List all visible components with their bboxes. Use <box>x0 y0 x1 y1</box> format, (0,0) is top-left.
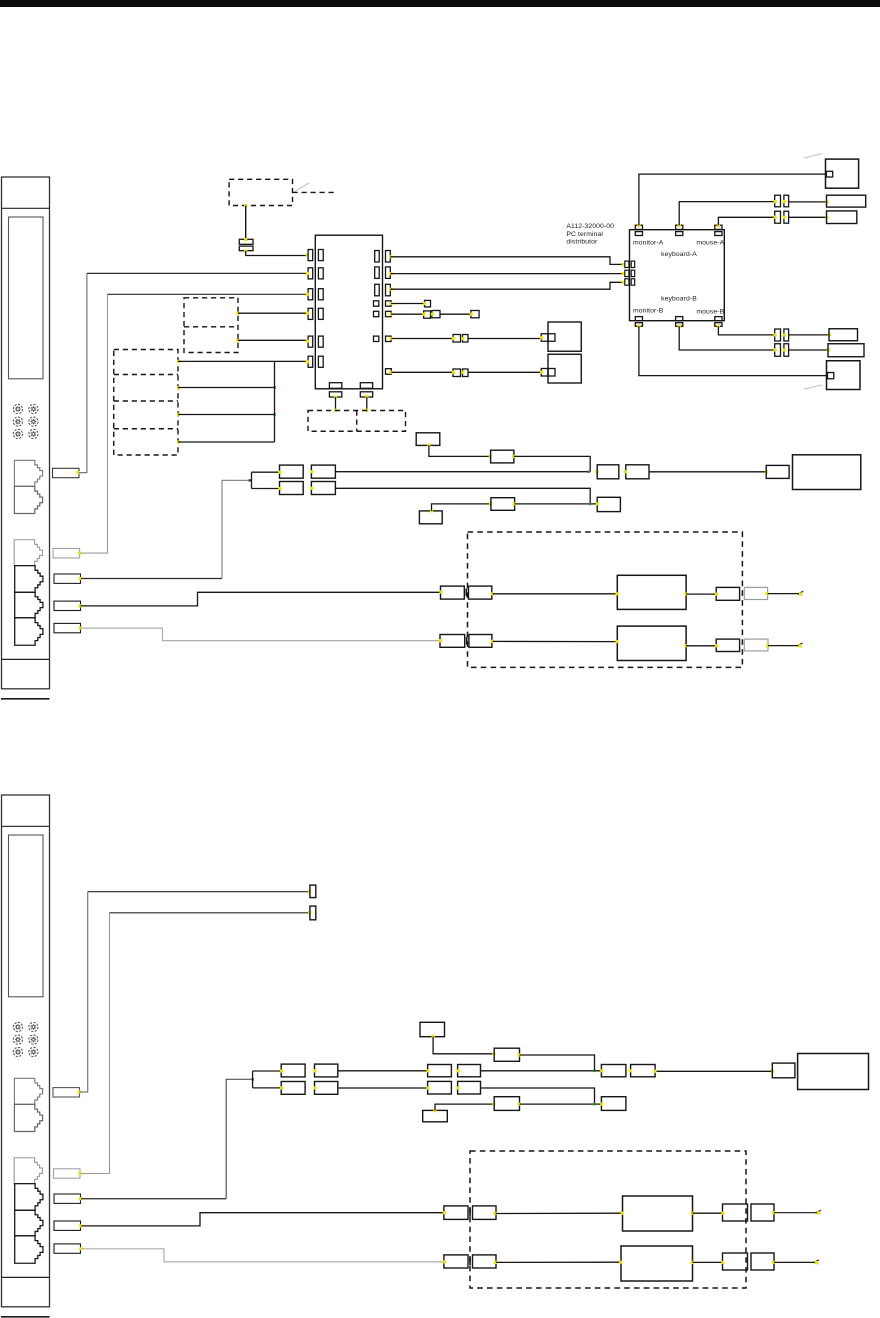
top port inner <box>676 232 683 236</box>
junction dot <box>491 640 494 643</box>
coupler <box>601 1065 626 1077</box>
wire <box>789 216 827 218</box>
junction dot <box>177 413 180 416</box>
connector square <box>463 335 469 343</box>
modular jack <box>15 618 43 646</box>
panel pin inner <box>375 251 380 263</box>
converter box <box>623 1196 693 1231</box>
junction dot <box>439 590 442 593</box>
wire <box>768 593 799 595</box>
inline adapter <box>491 450 514 463</box>
junction dot <box>78 1090 81 1093</box>
panel bottom pin outer <box>360 392 372 397</box>
wire <box>693 1212 723 1214</box>
junction dot <box>79 1224 82 1227</box>
wire <box>366 397 368 411</box>
wire <box>433 1037 494 1054</box>
coupler <box>428 1065 452 1077</box>
top port outer <box>715 225 722 229</box>
junction dot <box>492 1103 495 1106</box>
junction dot <box>774 200 777 203</box>
cable-end arrow <box>816 1210 822 1214</box>
wire <box>774 1261 814 1263</box>
svg-text:monitor-A: monitor-A <box>633 239 664 246</box>
dashed divider <box>114 374 178 376</box>
junction dot <box>389 337 392 340</box>
panel pin outer <box>308 336 313 347</box>
round DIN connector <box>29 1047 38 1056</box>
dashed option box <box>229 179 292 205</box>
cable plug <box>54 574 81 583</box>
junction dot <box>452 371 455 374</box>
wire <box>245 206 247 240</box>
bus branch <box>178 360 275 362</box>
junction dot <box>589 503 592 506</box>
coupler <box>723 1204 748 1221</box>
wire <box>496 1212 623 1214</box>
junction dot <box>236 339 239 342</box>
junction dot <box>691 1212 694 1215</box>
inline connector bar <box>239 246 253 251</box>
split bracket <box>250 472 280 488</box>
front slot panel <box>9 217 44 379</box>
wire <box>493 640 618 642</box>
wire <box>338 1070 428 1072</box>
panel pin inner <box>318 356 323 367</box>
cable vertical <box>81 913 110 1174</box>
panel pin outer <box>308 250 313 261</box>
cable plug <box>53 549 80 558</box>
wire <box>238 339 307 341</box>
modular jack <box>15 1184 43 1211</box>
coupler <box>751 1253 774 1270</box>
cable C5 grey run <box>81 628 440 641</box>
connector half <box>444 1206 468 1220</box>
PC unit B outline <box>2 795 50 1307</box>
junction dot <box>310 487 313 490</box>
junction dot <box>310 470 313 473</box>
connector square <box>453 369 461 377</box>
svg-text:monitor-B: monitor-B <box>633 307 664 314</box>
round DIN connector <box>13 1022 22 1031</box>
junction dot <box>489 502 492 505</box>
junction dot <box>587 470 590 473</box>
coupler <box>597 465 619 479</box>
junction dot <box>427 444 430 447</box>
cable plug <box>53 468 80 477</box>
junction dot <box>273 413 276 416</box>
junction dot <box>244 204 247 207</box>
cable plug <box>54 1169 81 1178</box>
cable <box>390 282 624 289</box>
panel pin small outer <box>386 301 392 306</box>
junction dot <box>783 348 786 351</box>
junction dot <box>624 470 627 473</box>
connector square <box>432 311 440 318</box>
round DIN connector <box>29 1035 38 1044</box>
junction dot <box>621 1212 624 1215</box>
wire <box>789 334 829 336</box>
grey sketch mark <box>804 385 822 389</box>
bottom port inner <box>676 317 683 321</box>
dashed divider <box>184 326 238 328</box>
junction dot <box>278 471 281 474</box>
mouse-B cable <box>718 326 774 335</box>
modular jack <box>14 540 42 566</box>
junction dot <box>236 312 239 315</box>
junction dot <box>717 224 720 227</box>
junction dot <box>715 593 718 596</box>
junction dot <box>273 386 276 389</box>
wire <box>789 349 828 351</box>
junction dot <box>432 1035 435 1038</box>
round DIN connector <box>13 417 22 426</box>
junction dot <box>431 313 434 316</box>
wire <box>515 503 598 505</box>
junction dot <box>622 272 625 275</box>
keyboard B box <box>828 344 864 357</box>
split bracket <box>253 1071 282 1088</box>
dashed box under panel <box>308 411 406 432</box>
wire <box>520 1103 602 1105</box>
cable plug <box>54 1244 81 1253</box>
connector square <box>463 369 469 377</box>
pair pin <box>775 344 781 357</box>
connector half <box>440 635 465 648</box>
junction dot <box>443 1211 446 1214</box>
round DIN connector <box>13 429 22 438</box>
panel pin inner <box>375 267 380 279</box>
coupler <box>631 1065 656 1077</box>
junction dot <box>691 1261 694 1264</box>
modular jack <box>14 1104 42 1131</box>
left port inner <box>631 261 635 267</box>
panel pin outer <box>308 356 313 367</box>
left port inner <box>631 270 635 276</box>
grey leader mark <box>295 183 310 192</box>
wire <box>481 1088 595 1104</box>
panel pin small inner <box>374 311 379 316</box>
cable coupler <box>311 465 335 478</box>
junction dot <box>334 409 337 412</box>
PC unit A outline <box>2 177 50 689</box>
bottom cap divider <box>2 658 50 660</box>
junction dot <box>452 337 455 340</box>
cable <box>390 273 624 275</box>
junction dot <box>629 1069 632 1072</box>
junction dot <box>306 272 309 275</box>
junction dot <box>470 313 473 316</box>
junction dot <box>244 238 247 241</box>
dashed divider <box>356 411 358 432</box>
junction dot <box>766 644 769 647</box>
base line <box>1 698 50 700</box>
junction dot <box>494 1212 497 1215</box>
junction dot <box>678 224 681 227</box>
junction dot <box>540 336 543 339</box>
wire <box>649 471 766 473</box>
mouse-A cable <box>718 217 774 225</box>
wire <box>768 645 798 647</box>
panel bottom pin inner <box>329 383 341 389</box>
wire <box>774 1212 816 1214</box>
inline connector bar <box>239 239 253 244</box>
junction dot <box>430 509 433 512</box>
junction dot <box>389 302 392 305</box>
junction dot <box>494 1261 497 1264</box>
panel pin inner <box>318 336 323 347</box>
bottom port inner <box>635 317 642 321</box>
panel pin outer <box>308 268 313 279</box>
junction dot <box>306 293 309 296</box>
monitor B box <box>827 361 861 390</box>
junction dot <box>678 325 681 328</box>
junction dot <box>619 1261 622 1264</box>
modular jack <box>15 592 43 618</box>
wire <box>693 1261 723 1263</box>
stub pin <box>310 906 316 920</box>
box pin outer <box>541 369 548 377</box>
junction dot <box>423 302 426 305</box>
wire <box>789 201 827 203</box>
stub wire <box>440 313 471 315</box>
top port outer <box>676 225 683 229</box>
junction dot <box>600 1103 603 1106</box>
junction dot <box>593 1070 596 1073</box>
dashed module stack <box>114 350 178 456</box>
cable to dashed row1 <box>82 1213 444 1226</box>
modular jack <box>14 1158 42 1184</box>
cable riser <box>80 892 88 1092</box>
coupler <box>716 587 739 600</box>
junction dot <box>278 487 281 490</box>
connector square <box>453 335 461 343</box>
junction dot <box>389 371 392 374</box>
junction dot <box>622 281 625 284</box>
dashed module box <box>184 298 238 353</box>
coupler <box>315 1082 338 1095</box>
mouse A box <box>827 211 857 224</box>
front slot panel <box>9 835 44 997</box>
junction dot <box>774 216 777 219</box>
cable coupler <box>311 482 335 495</box>
wire <box>493 593 618 595</box>
stub wire <box>391 313 424 315</box>
svg-text:mouse-A: mouse-A <box>696 239 724 246</box>
wire <box>432 504 491 511</box>
junction dot <box>426 1069 429 1072</box>
connector half <box>444 1255 468 1268</box>
cable C2 vertical <box>81 294 108 553</box>
stub wire <box>391 303 424 305</box>
monitor A box <box>826 159 859 188</box>
connector half <box>441 586 465 599</box>
left port outer <box>625 270 629 276</box>
svg-text:keyboard-B: keyboard-B <box>661 295 697 302</box>
junction dot <box>280 1086 283 1089</box>
wire <box>655 1070 772 1072</box>
panel pin inner <box>318 289 323 300</box>
wire <box>686 645 716 647</box>
connector panel block <box>315 235 382 389</box>
junction dot <box>248 479 251 482</box>
junction dot <box>765 470 768 473</box>
junction dot <box>244 250 247 253</box>
cable C1 riser <box>79 273 87 472</box>
junction dot <box>308 911 311 914</box>
cable plug <box>54 1194 81 1203</box>
junction dot <box>721 1212 724 1215</box>
box pin inner <box>548 369 555 377</box>
coupler <box>751 1204 774 1221</box>
junction dot <box>426 1086 429 1089</box>
junction dot <box>306 312 309 315</box>
svg-text:keyboard-A: keyboard-A <box>661 251 697 258</box>
long cable row2 <box>335 488 590 503</box>
bus branch <box>178 441 275 443</box>
box pin inner <box>548 334 555 342</box>
monitor-B cable <box>639 326 828 375</box>
pair pin <box>775 211 781 223</box>
junction dot <box>79 604 82 607</box>
pair pin <box>775 329 781 341</box>
junction dot <box>365 395 368 398</box>
coupler <box>458 1081 481 1094</box>
wire to panel pin 1 <box>246 251 308 256</box>
junction dot <box>177 386 180 389</box>
bottom port outer <box>676 323 683 327</box>
junction dot <box>492 1052 495 1055</box>
wire <box>468 371 541 373</box>
page header bar <box>0 0 880 7</box>
wire <box>514 456 590 471</box>
top cap divider <box>2 207 50 209</box>
dashed divider <box>114 428 178 430</box>
monitor A pin <box>826 171 832 177</box>
cable <box>81 578 222 580</box>
panel pin inner <box>318 250 323 261</box>
adapter box <box>420 1022 445 1036</box>
inline adapter <box>494 1048 519 1061</box>
junction dot <box>772 1261 775 1264</box>
bus branch <box>178 414 275 416</box>
round DIN connector <box>13 404 22 413</box>
connector square <box>424 311 431 318</box>
modular jack <box>14 460 42 486</box>
modular jack <box>15 566 43 593</box>
junction dot <box>595 470 598 473</box>
PC terminal distributor box <box>630 230 725 321</box>
junction dot <box>540 371 543 374</box>
junction dot <box>783 216 786 219</box>
junction dot <box>825 200 828 203</box>
junction dot <box>518 1103 521 1106</box>
junction dot <box>79 577 82 580</box>
cable C1 to pin row2 <box>87 272 307 274</box>
grey sketch mark <box>804 154 822 159</box>
junction dot <box>600 1069 603 1072</box>
top port inner <box>715 232 722 236</box>
bottom port outer <box>635 323 642 327</box>
panel pin small outer <box>386 369 392 375</box>
stub pin <box>310 885 316 898</box>
junction dot <box>280 1069 283 1072</box>
box pin outer <box>541 334 548 342</box>
cable-end arrow <box>798 591 804 595</box>
dashed unit enclosure <box>468 532 743 667</box>
video cable A <box>390 257 624 265</box>
junction dot <box>443 1260 446 1263</box>
keyboard-B cable <box>679 326 775 350</box>
junction dot <box>593 1103 596 1106</box>
coupler <box>428 1081 452 1094</box>
monitor B pin <box>828 373 834 379</box>
coupler <box>281 1064 305 1077</box>
junction dot <box>79 1247 82 1250</box>
modular jack <box>14 486 42 513</box>
cable coupler <box>280 465 304 478</box>
adapter box <box>416 433 440 446</box>
connector half <box>469 635 492 648</box>
junction dot <box>774 348 777 351</box>
junction dot <box>306 253 309 256</box>
junction dot <box>513 502 516 505</box>
junction dot <box>461 337 464 340</box>
junction dot <box>251 1078 254 1081</box>
junction dot <box>491 592 494 595</box>
junction dot <box>461 371 464 374</box>
cable riser <box>226 1079 252 1198</box>
junction dot <box>827 348 830 351</box>
junction dot <box>637 325 640 328</box>
panel bottom pin outer <box>329 392 341 397</box>
small device box A <box>548 322 581 351</box>
pair pin <box>784 195 789 207</box>
junction dot <box>518 1053 521 1056</box>
modular jack <box>15 1236 43 1264</box>
pair pin <box>775 195 781 207</box>
connector half <box>469 586 492 599</box>
converter box <box>621 1246 693 1281</box>
round DIN connector <box>13 1047 22 1056</box>
dashed unit enclosure <box>470 1151 746 1288</box>
junction dot <box>825 216 828 219</box>
junction dot <box>433 1109 436 1112</box>
cable plug <box>53 1088 80 1097</box>
junction dot <box>717 325 720 328</box>
junction dot <box>439 639 442 642</box>
junction dot <box>306 340 309 343</box>
coupler <box>281 1082 305 1095</box>
junction dot <box>79 627 82 630</box>
top port outer <box>635 225 642 229</box>
junction dot <box>771 1070 774 1073</box>
wire <box>520 1055 595 1071</box>
wire <box>429 445 491 456</box>
coupler <box>458 1065 481 1077</box>
bus to pin row6 <box>275 361 308 442</box>
junction dot <box>77 471 80 474</box>
svg-text:distributor: distributor <box>566 239 598 246</box>
wire <box>468 338 541 340</box>
junction dot <box>721 1261 724 1264</box>
coupler <box>601 1097 626 1111</box>
junction dot <box>389 288 392 291</box>
adapter <box>766 465 789 478</box>
junction dot <box>389 255 392 258</box>
stub terminator <box>471 311 479 318</box>
wire <box>391 371 453 373</box>
